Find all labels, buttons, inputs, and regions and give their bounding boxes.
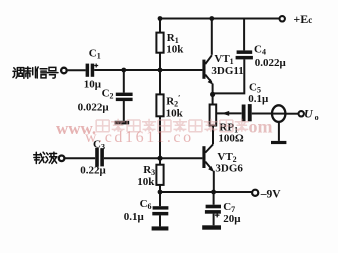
- label 载波 (carrier): [34, 152, 57, 163]
- svg-text:0.022μ: 0.022μ: [255, 57, 287, 69]
- svg-text:U: U: [304, 106, 314, 120]
- terminal circle: -9V: [252, 190, 258, 196]
- svg-text:100Ω: 100Ω: [218, 133, 244, 145]
- wire rail to C4 top: [243, 19, 245, 51]
- svg-text:0.022μ: 0.022μ: [78, 102, 110, 114]
- capacitor C3 plates: [95, 148, 104, 167]
- terminal circle: +Ec: [280, 16, 285, 21]
- wire R2 bottom down to carrier node: [159, 116, 161, 158]
- wire R1 bottom to base node: [159, 53, 161, 70]
- transistor VT2: [202, 144, 214, 172]
- svg-text:R3: R3: [143, 164, 155, 177]
- capacitor C5 plates: [242, 104, 252, 121]
- svg-text:–9V: –9V: [260, 188, 282, 200]
- node rail-R1: [158, 16, 163, 21]
- wire jack through: [271, 113, 286, 115]
- resistor R1: [156, 33, 163, 53]
- wire base node to R2 top: [159, 70, 161, 94]
- svg-text:C4: C4: [254, 43, 266, 56]
- wire C6 stem lower: [159, 215, 161, 226]
- ground bar under C7: [202, 225, 221, 229]
- wire C6 stem upper: [159, 192, 161, 206]
- potentiometer RP1 wiper arrow: [222, 111, 229, 116]
- svg-text:10k: 10k: [166, 43, 184, 55]
- capacitor C1 plates (polarized): [86, 64, 95, 77]
- wire VT1 emitter to node: [212, 84, 214, 95]
- svg-text:0.22μ: 0.22μ: [80, 165, 106, 177]
- char 波: [46, 152, 57, 163]
- wire C3 to VT2 base: [104, 157, 202, 159]
- transistor VT1: [202, 55, 213, 85]
- wire emitter node to C4 bottom corner: [213, 59, 245, 93]
- char 信: [36, 67, 47, 78]
- svg-text:10k: 10k: [166, 107, 184, 119]
- node VT1 emitter / RP / C4: [210, 92, 215, 97]
- wire top supply rail: [160, 18, 279, 20]
- svg-text:3DG6: 3DG6: [215, 162, 243, 174]
- node base-R1R2: [158, 68, 163, 73]
- svg-text:0.1μ: 0.1μ: [124, 211, 145, 223]
- ground bar under C6: [152, 226, 169, 230]
- wire modulation input to C1: [68, 69, 86, 71]
- capacitor C1 plus sign: [94, 64, 98, 68]
- node bottom rail-R3-C6: [158, 190, 163, 195]
- terminal circle: Uo: [299, 111, 304, 116]
- capacitor C6 plates: [152, 206, 168, 215]
- ground bar under jack: [271, 141, 286, 144]
- node bottom rail-VT2 emitter-C7: [211, 190, 216, 195]
- wire VT1 collector to rail: [211, 19, 213, 55]
- wire C2 stem upper: [123, 70, 125, 93]
- node rail-VT1 collector: [209, 16, 214, 21]
- output jack circle: [272, 105, 285, 122]
- svg-text:C1: C1: [89, 48, 101, 61]
- wire carrier node to R3 top: [159, 158, 161, 165]
- capacitor C7 plates (polarized): [205, 205, 221, 214]
- svg-text:R2′: R2′: [166, 94, 180, 109]
- potentiometer RP1 body: [210, 105, 217, 126]
- svg-text:0.1μ: 0.1μ: [248, 93, 269, 105]
- svg-text:C2: C2: [102, 88, 114, 101]
- svg-text:+Ec: +Ec: [293, 12, 312, 26]
- node carrier-R2R3: [157, 156, 162, 161]
- svg-text:20μ: 20μ: [223, 213, 241, 225]
- node base-C2: [121, 68, 126, 73]
- terminal circle: carrier input: [59, 156, 65, 162]
- wire base of VT1 from C1: [94, 69, 202, 71]
- capacitor C2 plates: [116, 93, 133, 102]
- char 载: [34, 152, 45, 163]
- wire bottom rail: [160, 191, 252, 193]
- wire R1 column: rail to R1 top: [159, 19, 161, 33]
- wire R3 bottom to bottom rail: [159, 185, 161, 192]
- char 调: [13, 68, 24, 79]
- svg-text:C7: C7: [223, 201, 235, 214]
- svg-text:10k: 10k: [137, 176, 155, 188]
- wire carrier input to C3: [65, 157, 95, 159]
- watermark pink hanzi blocks: [96, 119, 249, 132]
- wire C2 stem lower to ground: [123, 101, 125, 121]
- wire node to RP top: [212, 94, 214, 104]
- wire VT2 emitter to bottom rail: [213, 171, 215, 192]
- ground bar under C2: [115, 121, 130, 125]
- capacitor C4 plates: [236, 50, 253, 59]
- wire RP bottom to VT2 collector: [212, 126, 214, 145]
- svg-text:o: o: [315, 113, 319, 122]
- wire jack to Uo terminal: [286, 113, 298, 115]
- wire RP wiper to C5: [216, 112, 241, 114]
- label 调制信号 (modulation signal): [13, 67, 58, 78]
- svg-text:w.cd1611.co: w.cd1611.co: [85, 129, 194, 146]
- svg-text:10μ: 10μ: [84, 79, 102, 91]
- capacitor C7 plus sign: [215, 213, 220, 218]
- resistor R3: [156, 165, 163, 185]
- wire C5 to jack: [252, 113, 272, 115]
- resistor R2': [156, 94, 163, 116]
- terminal circle: modulation input: [61, 68, 67, 74]
- char 号: [47, 67, 58, 78]
- wire C7 stem upper: [213, 192, 215, 205]
- svg-text:3DG11: 3DG11: [211, 65, 243, 77]
- wire jack stem to ground: [278, 122, 280, 140]
- char 制: [25, 67, 36, 78]
- svg-text:om: om: [249, 117, 273, 137]
- wire C7 stem lower: [213, 214, 215, 226]
- svg-text:C6: C6: [140, 198, 152, 211]
